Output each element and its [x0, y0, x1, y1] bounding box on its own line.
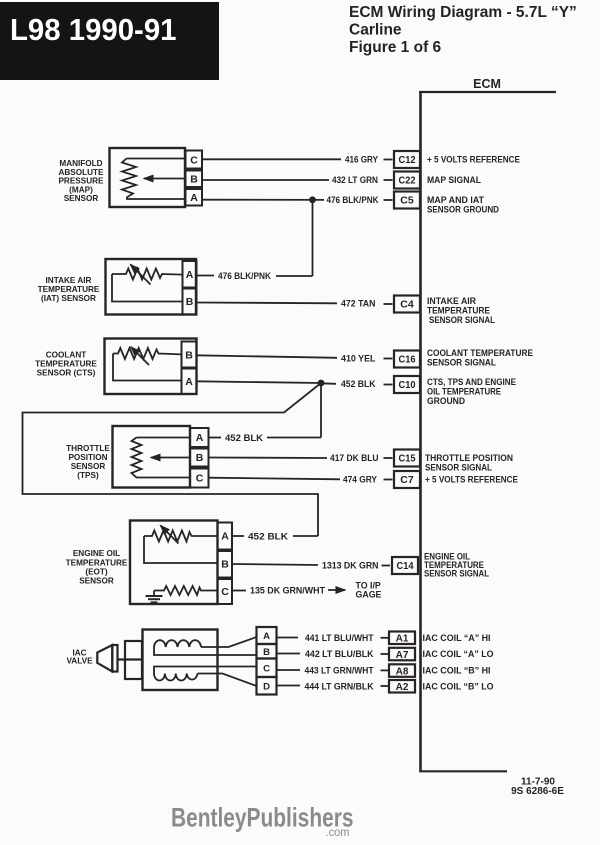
label TO I/P GAGE [356, 581, 382, 600]
CTS sensor [105, 339, 197, 395]
wire 444 LT GRN/BLK [277, 681, 389, 692]
connector A2 [389, 680, 415, 693]
connector C12 [394, 151, 420, 168]
connector A1 [389, 632, 415, 645]
svg-text:A2: A2 [396, 682, 409, 693]
MAP sensor U1 [110, 148, 203, 207]
svg-text:POSITION: POSITION [68, 453, 107, 462]
svg-text:442 LT BLU/BLK: 442 LT BLU/BLK [305, 649, 374, 660]
pin C5 function label [427, 195, 499, 215]
TPS potentiometer R [132, 438, 191, 478]
wire 432 LT GRN [202, 175, 393, 186]
connector C15 [394, 450, 420, 467]
svg-text:A: A [221, 531, 229, 543]
svg-text:B: B [196, 452, 204, 464]
svg-text:.com: .com [326, 825, 350, 839]
svg-text:416 GRY: 416 GRY [345, 155, 379, 166]
svg-text:C10: C10 [399, 379, 416, 391]
wire 416 GRY [202, 155, 393, 166]
IAC coil A L1 [154, 637, 257, 655]
svg-text:(MAP): (MAP) [69, 185, 93, 194]
connector C16 [394, 351, 420, 368]
svg-text:A: A [196, 432, 204, 444]
TPS sensor [113, 426, 209, 488]
pin C16 function label [427, 348, 533, 368]
svg-text:TEMPERATURE: TEMPERATURE [66, 558, 128, 567]
wire 441 LT BLU/WHT [277, 633, 389, 644]
pin C15 function label [425, 453, 513, 473]
svg-text:COOLANT: COOLANT [46, 351, 86, 360]
heading text [349, 4, 577, 56]
svg-text:(TPS): (TPS) [77, 471, 99, 480]
svg-text:135 DK GRN/WHT: 135 DK GRN/WHT [250, 586, 325, 597]
wire 452 BLK from EOT A [232, 532, 318, 543]
pin C12 function label [427, 155, 520, 165]
svg-text:ECM: ECM [473, 77, 501, 91]
svg-text:476 BLK/PNK: 476 BLK/PNK [327, 195, 379, 206]
svg-text:A: A [186, 269, 194, 281]
svg-text:IAC COIL “B” LO: IAC COIL “B” LO [423, 681, 494, 691]
pin C10 function label [427, 377, 516, 406]
wire 417 DK BLU [209, 453, 393, 464]
IAC coil B L2 [154, 667, 257, 687]
wire 452 BLK to C10 [197, 379, 393, 390]
svg-text:9S 6286-6E: 9S 6286-6E [511, 786, 564, 797]
wire 472 TAN [197, 299, 393, 310]
connector C7 [394, 471, 420, 488]
svg-text:L98 1990-91: L98 1990-91 [10, 12, 177, 47]
pin A7 function label [423, 649, 494, 659]
svg-text:C14: C14 [397, 560, 414, 572]
wire 442 LT BLU/BLK [277, 649, 389, 660]
title banner L98 1990-91 [0, 2, 219, 80]
svg-text:THROTTLE: THROTTLE [66, 444, 110, 453]
svg-text:ENGINE OIL: ENGINE OIL [73, 549, 120, 558]
svg-text:SENSOR SIGNAL: SENSOR SIGNAL [427, 358, 496, 368]
svg-text:INTAKE AIR: INTAKE AIR [427, 296, 476, 306]
wire pintle stem [118, 658, 144, 660]
svg-text:C15: C15 [399, 453, 416, 465]
svg-text:ECM Wiring Diagram - 5.7L “Y”: ECM Wiring Diagram - 5.7L “Y” [349, 4, 577, 21]
svg-text:Carline: Carline [349, 22, 402, 39]
IAT thermistor R [112, 265, 183, 302]
svg-text:+ 5 VOLTS REFERENCE: + 5 VOLTS REFERENCE [427, 155, 520, 165]
pin A1 function label [423, 633, 491, 643]
connector C5 [394, 192, 420, 209]
wire 410 YEL [197, 354, 393, 365]
svg-text:VALVE: VALVE [66, 657, 93, 666]
svg-text:B: B [263, 647, 270, 658]
wire 476 BLK/PNK to IAT A [197, 271, 313, 282]
svg-text:C: C [263, 663, 270, 674]
svg-text:GAGE: GAGE [356, 590, 382, 600]
pin C22 function label [427, 175, 481, 185]
svg-text:MAP SIGNAL: MAP SIGNAL [427, 175, 481, 185]
svg-text:TEMPERATURE: TEMPERATURE [35, 360, 97, 369]
svg-text:ABSOLUTE: ABSOLUTE [58, 168, 104, 177]
wire 474 GRY [209, 475, 393, 486]
svg-text:GROUND: GROUND [427, 396, 465, 406]
svg-text:C16: C16 [399, 354, 416, 366]
connector C14 [392, 557, 418, 574]
svg-text:474 GRY: 474 GRY [343, 475, 378, 486]
IAT sensor label [38, 276, 100, 303]
svg-text:SENSOR SIGNAL: SENSOR SIGNAL [424, 569, 489, 579]
svg-text:IAC COIL “A” LO: IAC COIL “A” LO [423, 649, 494, 659]
svg-text:476 BLK/PNK: 476 BLK/PNK [218, 271, 271, 282]
svg-text:C12: C12 [399, 154, 416, 166]
ECM connector bracket line [419, 91, 556, 772]
wire 452 BLK from TPS A [209, 433, 322, 444]
connector C10 [394, 376, 420, 393]
connector C22 [394, 172, 420, 189]
pin C4 function label [427, 296, 495, 325]
svg-text:Figure 1 of 6: Figure 1 of 6 [349, 39, 442, 56]
svg-text:MAP AND IAT: MAP AND IAT [427, 195, 484, 205]
svg-text:A7: A7 [396, 650, 409, 661]
svg-text:472 TAN: 472 TAN [341, 299, 376, 310]
connector A8 [389, 664, 415, 677]
pin A2 function label [423, 681, 494, 691]
arrow to IP gage [328, 589, 345, 591]
svg-text:TEMPERATURE: TEMPERATURE [427, 306, 490, 316]
svg-text:C22: C22 [399, 175, 416, 187]
IAC motor body [143, 630, 218, 691]
svg-text:SENSOR: SENSOR [64, 194, 99, 203]
ECM label [473, 77, 501, 91]
svg-text:(EOT): (EOT) [85, 568, 108, 577]
svg-text:444 LT GRN/BLK: 444 LT GRN/BLK [305, 681, 374, 692]
connector C4 [394, 296, 420, 313]
IAC valve label [66, 649, 93, 666]
IAT sensor [106, 259, 197, 315]
svg-text:SENSOR GROUND: SENSOR GROUND [427, 205, 499, 215]
MAP potentiometer R [122, 159, 186, 200]
svg-text:C: C [190, 154, 198, 166]
svg-text:SENSOR: SENSOR [71, 462, 106, 471]
svg-text:CTS, TPS AND ENGINE: CTS, TPS AND ENGINE [427, 377, 516, 387]
IAC valve pintle cone [97, 645, 117, 672]
date and document number [511, 777, 564, 798]
EOT thermistor R [144, 526, 218, 564]
pin C7 function label [425, 475, 518, 485]
svg-text:A1: A1 [396, 634, 409, 645]
svg-text:PRESSURE: PRESSURE [58, 177, 104, 186]
wire 452 riser from TPS [320, 383, 322, 438]
EOT sensor label [66, 549, 128, 586]
svg-text:441 LT BLU/WHT: 441 LT BLU/WHT [305, 633, 374, 644]
svg-text:D: D [263, 681, 270, 692]
svg-text:SENSOR SIGNAL: SENSOR SIGNAL [425, 463, 492, 473]
node junction 476 [309, 196, 316, 203]
svg-text:SENSOR: SENSOR [79, 577, 114, 586]
svg-text:A8: A8 [396, 666, 409, 677]
node junction 452 [318, 380, 325, 387]
svg-text:A: A [185, 376, 193, 388]
svg-text:C5: C5 [400, 195, 414, 207]
svg-text:452 BLK: 452 BLK [248, 532, 288, 543]
svg-text:SENSOR SIGNAL: SENSOR SIGNAL [429, 315, 495, 325]
svg-text:SENSOR (CTS): SENSOR (CTS) [37, 369, 96, 378]
IAC plunger [125, 641, 142, 679]
svg-text:C7: C7 [400, 474, 414, 486]
CTS sensor label [35, 351, 97, 378]
svg-text:C4: C4 [400, 299, 414, 311]
pin C14 function label [424, 552, 489, 579]
svg-text:(IAT) SENSOR: (IAT) SENSOR [41, 294, 96, 303]
EOT sensor [130, 521, 232, 605]
wire 443 LT GRN/WHT [277, 666, 389, 677]
publisher logo [171, 803, 354, 840]
svg-text:B: B [190, 174, 198, 186]
connector A7 [389, 648, 415, 661]
svg-text:A: A [190, 192, 198, 204]
wire 452 ground bus diagonal and loop [23, 383, 322, 536]
wire 135 DK GRN/WHT [232, 586, 325, 597]
svg-text:INTAKE AIR: INTAKE AIR [46, 276, 92, 285]
svg-text:TEMPERATURE: TEMPERATURE [38, 285, 100, 294]
IAC pin connector block [257, 627, 277, 695]
CTS thermistor R [113, 347, 182, 381]
svg-text:410 YEL: 410 YEL [341, 354, 376, 365]
svg-text:A: A [263, 631, 270, 642]
svg-text:452 BLK: 452 BLK [341, 379, 376, 390]
svg-text:IAC COIL “B” HI: IAC COIL “B” HI [423, 666, 491, 676]
EOT heater resistor R [154, 586, 218, 595]
svg-text:432 LT GRN: 432 LT GRN [332, 175, 378, 186]
svg-text:+ 5 VOLTS REFERENCE: + 5 VOLTS REFERENCE [425, 475, 518, 485]
svg-text:C: C [221, 586, 229, 598]
svg-text:417 DK BLU: 417 DK BLU [330, 453, 379, 464]
svg-text:B: B [185, 349, 193, 361]
ground [146, 591, 163, 603]
TPS sensor label [66, 444, 110, 480]
wire 476 riser to IAT [312, 200, 314, 276]
pin A8 function label [423, 666, 491, 676]
svg-text:443 LT GRN/WHT: 443 LT GRN/WHT [305, 666, 374, 677]
svg-text:B: B [221, 559, 229, 571]
svg-text:OIL TEMPERATURE: OIL TEMPERATURE [427, 387, 501, 397]
svg-text:C: C [196, 473, 204, 485]
MAP sensor label [58, 159, 104, 203]
svg-text:452 BLK: 452 BLK [225, 433, 263, 444]
svg-text:B: B [186, 296, 194, 308]
svg-text:1313 DK GRN: 1313 DK GRN [322, 561, 379, 572]
wire 1313 DK GRN [232, 561, 390, 572]
wire 476 BLK/PNK [202, 195, 393, 206]
svg-text:THROTTLE POSITION: THROTTLE POSITION [425, 453, 513, 463]
svg-text:IAC COIL “A” HI: IAC COIL “A” HI [423, 633, 491, 643]
svg-text:MANIFOLD: MANIFOLD [59, 159, 102, 168]
svg-text:COOLANT TEMPERATURE: COOLANT TEMPERATURE [427, 348, 533, 358]
